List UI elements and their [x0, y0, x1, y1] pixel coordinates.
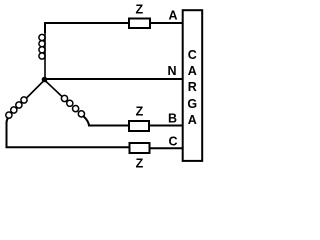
svg-text:A: A	[188, 113, 197, 127]
svg-text:N: N	[167, 64, 176, 78]
svg-text:Z: Z	[135, 3, 143, 17]
svg-text:G: G	[187, 97, 197, 111]
svg-text:A: A	[168, 9, 177, 23]
svg-text:B: B	[168, 112, 177, 126]
svg-text:R: R	[188, 80, 197, 94]
svg-text:Z: Z	[136, 105, 144, 119]
svg-text:Z: Z	[136, 157, 144, 171]
svg-text:C: C	[188, 48, 197, 62]
svg-text:C: C	[168, 135, 177, 149]
svg-text:A: A	[188, 64, 197, 78]
